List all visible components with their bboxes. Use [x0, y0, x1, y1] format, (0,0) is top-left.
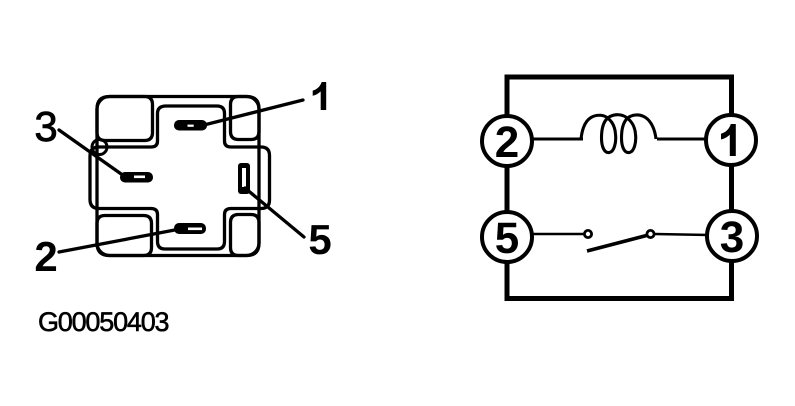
svg-text:3: 3: [720, 213, 744, 262]
leader line to pin 1: [196, 100, 303, 127]
coil L1: [581, 115, 656, 153]
notch bottom-right: [231, 215, 260, 256]
switch wire right: [655, 234, 709, 235]
terminal circle 2: [482, 116, 532, 166]
terminal circle 3: [707, 211, 757, 261]
pin 3 slot: [120, 172, 153, 183]
switch blade: [587, 236, 647, 252]
leader line to pin 3: [59, 130, 124, 176]
svg-text:G00050403: G00050403: [38, 307, 169, 337]
circuit frame: [507, 77, 732, 299]
label 1: [313, 82, 327, 110]
svg-text:3: 3: [34, 103, 57, 150]
coil wire right: [657, 138, 708, 141]
relay case outline: [97, 97, 259, 256]
relay cross plateau outline: [90, 106, 270, 249]
notch top-right: [231, 97, 260, 140]
svg-text:5: 5: [495, 214, 519, 263]
leader line to pin 2: [59, 229, 180, 252]
terminal circle 1: [706, 115, 756, 165]
pin 1 slot: [174, 120, 207, 131]
notch bottom-left: [97, 216, 152, 256]
pin 5 slot: [238, 163, 250, 194]
pin 2 slot: [174, 223, 206, 234]
svg-text:5: 5: [308, 216, 331, 263]
tab ear at left arm end: [92, 140, 107, 155]
leader line to pin 5: [245, 188, 304, 237]
svg-text:2: 2: [34, 233, 57, 280]
coil wire left: [530, 138, 583, 141]
terminal circle 5: [482, 212, 532, 262]
notch top-left: [97, 97, 153, 141]
switch contact a: [584, 230, 591, 237]
svg-text:2: 2: [495, 118, 519, 167]
switch contact b: [647, 230, 654, 237]
switch wire left: [530, 233, 584, 236]
